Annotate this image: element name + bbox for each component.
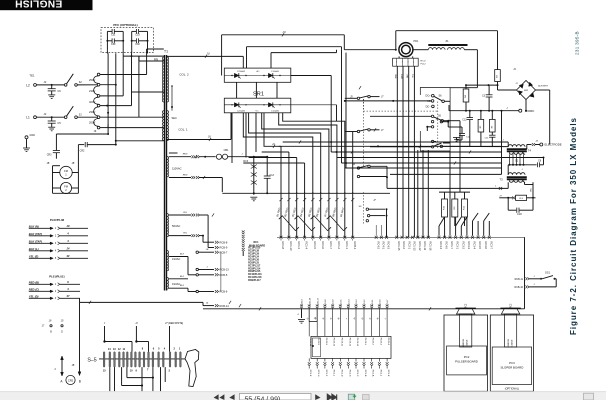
svg-text:BLK/WHT: BLK/WHT — [538, 86, 548, 88]
svg-text:R10: R10 — [444, 205, 446, 210]
S-5 switch bars — [99, 358, 185, 360]
svg-text:S–5: S–5 — [87, 358, 96, 364]
svg-text:RC3-3: RC3-3 — [467, 242, 471, 250]
ground C5 — [48, 126, 55, 128]
meter wiring — [52, 166, 54, 194]
U loop cols 2-3 — [309, 309, 317, 322]
connector RCB-5 — [196, 274, 198, 276]
svg-text:PL09-4: PL09-4 — [387, 338, 389, 346]
resistor R4 — [465, 85, 467, 89]
PFC pair 1 rails — [106, 31, 108, 50]
bus to SR2 — [466, 84, 498, 86]
svg-text:Figure 7-2. Circuit Diagram Fo: Figure 7-2. Circuit Diagram For 350 LX M… — [569, 117, 578, 335]
svg-text:18: 18 — [49, 320, 52, 323]
svg-text:R9: R9 — [454, 206, 456, 210]
svg-text:J4: J4 — [44, 113, 47, 116]
svg-text:BLK: BLK — [180, 285, 185, 287]
svg-text:RC1-3: RC1-3 — [297, 242, 301, 250]
svg-text:12: 12 — [118, 348, 121, 351]
bus mid 5 — [243, 162, 304, 164]
svg-text:RC3-1: RC3-1 — [456, 242, 460, 250]
svg-text:BLK (TAP): BLK (TAP) — [29, 232, 42, 236]
wire from PL011 down — [79, 298, 81, 302]
svg-text:CB1: CB1 — [224, 149, 229, 152]
svg-text:4Z: 4Z — [65, 254, 69, 258]
svg-text:SR1: SR1 — [253, 92, 264, 98]
switch S2 — [64, 84, 67, 87]
connector RCB-8 — [203, 241, 214, 243]
svg-text:S8: S8 — [359, 206, 362, 208]
wire to tap — [77, 84, 97, 86]
svg-text:RC1-K: RC1-K — [387, 370, 389, 377]
svg-text:230V: 230V — [89, 89, 95, 93]
svg-text:RC3: RC3 — [243, 160, 248, 163]
svg-text:RC1/PL010: RC1/PL010 — [248, 248, 261, 250]
svg-text:C23-A42: C23-A42 — [237, 70, 246, 73]
wire 110VAC bottom — [191, 176, 193, 179]
svg-text:B3 RED: B3 RED — [291, 207, 297, 217]
S-5 trigger lever — [185, 350, 199, 387]
svg-text:250V: 250V — [89, 78, 95, 82]
wire to T3 left — [386, 177, 388, 188]
rectifier SR1 top section — [224, 68, 290, 82]
wire vertical group A — [279, 198, 282, 201]
fan diagonal crossovers — [279, 216, 299, 231]
wire T1 top to SR1 — [167, 55, 244, 57]
svg-text:RC1-8: RC1-8 — [281, 242, 285, 250]
switch S5a — [357, 97, 359, 99]
svg-text:RC11/PL218: RC11/PL218 — [248, 277, 262, 279]
svg-text:RC2: RC2 — [466, 303, 468, 308]
board PC2 outline — [444, 315, 488, 391]
S6 gang dashed — [437, 102, 439, 149]
svg-text:J4: J4 — [206, 302, 209, 305]
gang link dashed — [364, 110, 438, 112]
svg-text:RC1-7: RC1-7 — [329, 242, 333, 250]
svg-text:PL09-1: PL09-1 — [364, 338, 366, 346]
svg-text:RC6/PL25: RC6/PL25 — [248, 262, 260, 264]
svg-text:YEL: YEL — [183, 212, 188, 214]
resistor R8 — [499, 197, 513, 199]
bus mid 2 — [279, 145, 502, 147]
svg-text:3: 3 — [407, 62, 409, 64]
svg-text:JB: JB — [72, 365, 75, 367]
svg-text:CR3: CR3 — [47, 153, 52, 156]
S-5 bottom wires — [109, 367, 111, 391]
svg-text:RC1-L: RC1-L — [333, 370, 335, 377]
svg-text:COL. 2: COL. 2 — [179, 73, 189, 77]
svg-text:BLK: BLK — [180, 254, 185, 256]
svg-text:B8 RED: B8 RED — [331, 207, 337, 217]
svg-text:J7: J7 — [373, 200, 376, 202]
pin row group B — [375, 236, 378, 239]
svg-text:RC3-5: RC3-5 — [478, 242, 482, 250]
svg-text:J: J — [502, 140, 504, 142]
svg-text:RC1-7: RC1-7 — [450, 242, 454, 250]
svg-text:T4: T4 — [528, 149, 532, 153]
transformer T4 — [508, 145, 525, 147]
svg-text:RC7/PL217: RC7/PL217 — [248, 265, 261, 267]
svg-text:C13: C13 — [270, 174, 275, 177]
toroid to PL12 — [398, 56, 400, 58]
svg-text:6: 6 — [153, 347, 155, 350]
tap wires — [100, 74, 147, 76]
svg-text:RCB-9: RCB-9 — [220, 246, 228, 250]
svg-text:2: 2 — [55, 290, 57, 293]
svg-text:C8: C8 — [538, 159, 542, 162]
wire T4 bus to T3 — [507, 165, 509, 175]
svg-text:RC1-J: RC1-J — [379, 370, 381, 376]
resistor R6 — [491, 111, 493, 120]
pdf viewer toolbar — [0, 391, 606, 400]
svg-text:9: 9 — [136, 369, 138, 372]
pin row group A — [280, 236, 283, 239]
wires taps to T1 primary — [123, 55, 164, 57]
svg-text:4: 4 — [54, 368, 56, 371]
pin row rail — [277, 236, 525, 238]
svg-text:BLK (TAP): BLK (TAP) — [29, 239, 42, 243]
svg-text:RC3-7: RC3-7 — [489, 242, 493, 250]
svg-text:JT: JT — [499, 195, 502, 197]
switch S5b — [357, 130, 359, 132]
wire T1 bottom bus JU — [167, 139, 231, 141]
svg-text:RC1-H: RC1-H — [317, 370, 319, 377]
svg-text:J7: J7 — [381, 130, 384, 132]
svg-text:2: 2 — [174, 347, 176, 350]
svg-text:PL12: PL12 — [421, 64, 427, 66]
connector PL12 — [393, 58, 419, 66]
wire J6 — [56, 133, 108, 135]
vertical risers from SR1 right — [341, 50, 343, 163]
svg-text:47: 47 — [66, 294, 70, 298]
wire B arrow — [79, 302, 81, 375]
svg-text:JB: JB — [72, 163, 75, 165]
top bus right — [396, 30, 498, 32]
svg-text:J7: J7 — [381, 97, 384, 99]
svg-text:231 395-B: 231 395-B — [575, 31, 580, 55]
svg-text:L2: L2 — [26, 83, 30, 87]
svg-text:RED: RED — [183, 154, 188, 156]
tap winding stack — [97, 73, 100, 76]
svg-text:J1: J1 — [515, 83, 518, 85]
svg-text:RCB/PL217: RCB/PL217 — [248, 280, 261, 282]
svg-text:C22-A42: C22-A42 — [237, 109, 246, 112]
svg-text:56VAC: 56VAC — [172, 224, 180, 228]
svg-text:460V: 460V — [89, 100, 95, 104]
ENGLISH banner (rotated 180) — [0, 0, 93, 10]
gnd terminal — [25, 136, 28, 139]
capacitor C32 — [132, 40, 137, 42]
svg-text:J4: J4 — [513, 68, 516, 71]
vertical from Z1 — [476, 50, 478, 88]
svg-text:PULSER BOARD: PULSER BOARD — [455, 359, 478, 363]
svg-text:AC: AC — [427, 100, 431, 103]
svg-text:CR2: CR2 — [80, 150, 85, 153]
SR2 right wire BLK/WHT — [536, 89, 550, 91]
svg-text:DC–: DC– — [426, 105, 432, 108]
svg-text:RCB-10: RCB-10 — [514, 286, 523, 289]
PC3 ribbon cable — [505, 314, 517, 347]
svg-text:RC3/PL29: RC3/PL29 — [248, 254, 260, 256]
ELECTRODE terminal — [536, 144, 540, 146]
svg-text:PL09-12: PL09-12 — [348, 338, 350, 347]
svg-text:RIBBON: RIBBON — [508, 339, 510, 347]
svg-text:RC1-16: RC1-16 — [428, 242, 432, 251]
svg-text:RC3-4: RC3-4 — [473, 242, 477, 250]
svg-text:PRI: PRI — [154, 59, 158, 62]
svg-text:4: 4 — [66, 239, 69, 243]
svg-text:C14-A41: C14-A41 — [271, 70, 280, 73]
tap vertical bus 2 — [115, 53, 117, 144]
svg-text:J4: J4 — [535, 140, 538, 143]
arrow A — [61, 356, 63, 376]
svg-text:RC1-F: RC1-F — [325, 370, 327, 377]
svg-text:RC4-5: RC4-5 — [445, 242, 449, 250]
capacitor C12 — [469, 111, 471, 118]
svg-text:CABLE: CABLE — [510, 339, 513, 346]
svg-text:R11: R11 — [464, 205, 466, 210]
svg-text:J: J — [495, 186, 497, 188]
ground wire col1 — [301, 309, 303, 318]
svg-text:RC1-11: RC1-11 — [423, 242, 427, 251]
svg-text:RC4-1: RC4-1 — [382, 242, 386, 250]
svg-text:1: 1 — [55, 227, 57, 230]
svg-text:PFC (OPTIONAL): PFC (OPTIONAL) — [113, 23, 137, 27]
svg-text:B5 RED: B5 RED — [307, 207, 313, 217]
capacitor C5 — [51, 117, 53, 121]
capacitor C14 with ground — [447, 122, 449, 127]
svg-text:2: 2 — [65, 188, 67, 192]
pin row group E — [449, 236, 452, 239]
svg-text:RC10/PL216: RC10/PL216 — [248, 274, 262, 276]
T1 primary right winding COL2 — [167, 57, 169, 102]
svg-text:GND: GND — [30, 134, 36, 137]
capacitor C8 — [537, 162, 539, 167]
svg-text:4: 4 — [413, 62, 415, 64]
svg-text:4: 4 — [297, 313, 299, 316]
svg-text:WHT: WHT — [401, 73, 403, 78]
svg-text:19VAC: 19VAC — [172, 257, 180, 261]
svg-text:HD1: HD1 — [414, 40, 419, 43]
connector RCB-9 — [208, 247, 214, 249]
svg-text:RC1-5: RC1-5 — [313, 242, 317, 250]
connector J8 lower — [440, 145, 442, 147]
svg-text:5: 5 — [158, 347, 160, 350]
WORK terminal — [449, 110, 519, 112]
svg-text:TE1: TE1 — [29, 74, 35, 78]
svg-text:RC3: RC3 — [510, 303, 512, 308]
resistor R3 — [495, 70, 501, 82]
wire 19VAC A top — [169, 256, 188, 258]
tap vertical bus 4 — [131, 53, 133, 105]
wire 110VAC top — [166, 152, 168, 154]
svg-text:C5: C5 — [57, 121, 61, 125]
svg-text:PL09-3: PL09-3 — [379, 338, 381, 346]
svg-text:J4: J4 — [67, 247, 70, 251]
PFC pair 2 rails — [131, 31, 133, 50]
toolbar snapshot icon — [348, 394, 354, 400]
SR1 right outputs — [291, 75, 331, 77]
svg-text:S8: S8 — [352, 164, 355, 166]
capacitor C31 — [107, 30, 112, 32]
svg-text:C6: C6 — [57, 89, 61, 93]
right vertical bus a — [501, 111, 503, 175]
wire 19VAC B — [169, 278, 188, 280]
toolbar page field — [240, 393, 312, 400]
capacitor C11 — [489, 134, 495, 136]
svg-text:S6: S6 — [438, 95, 442, 98]
svg-text:YEL (E): YEL (E) — [29, 254, 39, 258]
ground symbol — [253, 190, 255, 195]
svg-text:C12-A41: C12-A41 — [271, 109, 280, 112]
svg-text:YEL: YEL — [183, 233, 188, 235]
svg-text:10: 10 — [130, 369, 133, 372]
svg-text:RC2-2: RC2-2 — [402, 242, 406, 250]
svg-text:C33: C33 — [135, 33, 140, 36]
svg-text:DC+: DC+ — [426, 95, 432, 98]
vertical connector chain — [242, 230, 245, 232]
svg-text:WORK: WORK — [525, 109, 534, 113]
vertical link — [220, 252, 222, 291]
svg-text:RC1-B: RC1-B — [364, 370, 366, 377]
svg-text:230V: 230V — [89, 110, 95, 114]
svg-text:RC1-15: RC1-15 — [397, 242, 401, 251]
svg-text:RED (C): RED (C) — [29, 287, 39, 291]
svg-text:S6: S6 — [438, 116, 442, 118]
svg-text:D: D — [61, 331, 63, 334]
svg-text:11: 11 — [122, 348, 125, 351]
svg-text:200V: 200V — [89, 121, 95, 125]
svg-text:T3: T3 — [499, 178, 503, 182]
PL12 wires down — [396, 66, 398, 237]
svg-text:B1 RED: B1 RED — [275, 207, 281, 217]
svg-text:PL09-9: PL09-9 — [325, 338, 327, 346]
T1 secondary 110VAC winding — [167, 157, 168, 177]
svg-text:2: 2 — [55, 235, 57, 238]
svg-text:R6: R6 — [491, 125, 493, 128]
svg-text:PL07/PL08: PL07/PL08 — [50, 218, 65, 222]
svg-text:JU: JU — [208, 135, 211, 139]
connector strip PL09 — [311, 336, 391, 358]
resistor R5 — [480, 111, 482, 120]
T4 primary left wire — [507, 142, 509, 147]
svg-text:B: B — [79, 380, 81, 384]
svg-text:RCB-8: RCB-8 — [220, 240, 228, 244]
tap vertical bus 5 — [138, 56, 140, 117]
tap vertical bus 1 — [107, 53, 109, 127]
svg-text:YEL: YEL — [531, 188, 533, 192]
svg-text:J: J — [241, 154, 243, 156]
S6 enclosure box — [420, 88, 450, 152]
svg-text:2: 2 — [402, 62, 404, 64]
svg-text:8: 8 — [142, 347, 144, 350]
svg-text:J: J — [533, 276, 535, 278]
board PC3 outline — [490, 315, 533, 391]
SR1 interconnect — [236, 82, 238, 98]
svg-text:RC4-4: RC4-4 — [439, 242, 443, 250]
S6 feed wire — [444, 100, 450, 102]
capacitor C30 — [107, 40, 112, 42]
capacitor C13 — [266, 157, 268, 176]
rectifier SR2 bridge — [517, 81, 536, 100]
svg-text:1: 1 — [55, 283, 57, 286]
tap vertical bus 6 — [146, 49, 148, 75]
toolbar first page button — [214, 394, 225, 400]
svg-text:GS1: GS1 — [545, 271, 551, 275]
svg-text:5: 5 — [55, 257, 57, 260]
svg-text:RC3-2: RC3-2 — [461, 242, 465, 250]
wire label ticks — [205, 55, 207, 58]
svg-text:SLOPER BOARD: SLOPER BOARD — [500, 365, 523, 369]
T1 secondary 19VAC winding A — [167, 250, 168, 270]
svg-text:17: 17 — [42, 325, 45, 328]
svg-text:RC1-E: RC1-E — [309, 370, 311, 377]
wire L1 — [36, 116, 64, 118]
electrode wire — [527, 144, 532, 146]
svg-text:3: 3 — [169, 369, 171, 372]
svg-text:7: 7 — [147, 369, 149, 372]
svg-text:CABLE: CABLE — [465, 339, 468, 346]
pin group D diagonals — [439, 217, 445, 226]
toolbar last page button — [327, 394, 336, 400]
svg-text:15: 15 — [61, 320, 64, 323]
SR1 gate wires down — [243, 113, 312, 194]
svg-text:1: 1 — [179, 347, 181, 350]
svg-text:C12: C12 — [462, 119, 467, 121]
wire GS1 riser — [524, 237, 526, 308]
wire L2 — [36, 84, 64, 86]
svg-text:RC1-10: RC1-10 — [289, 242, 293, 251]
svg-text:9: 9 — [67, 280, 69, 284]
svg-text:PL09-14: PL09-14 — [309, 338, 311, 347]
svg-text:RIBBON: RIBBON — [463, 339, 465, 347]
switch S1 — [64, 116, 67, 119]
svg-text:FM: FM — [64, 184, 68, 188]
svg-text:C1: C1 — [515, 159, 519, 162]
svg-text:110VAC: 110VAC — [172, 166, 182, 170]
ground C6 — [48, 94, 55, 96]
svg-text:PL09-10: PL09-10 — [333, 338, 335, 347]
PC2 ribbon cable — [460, 314, 472, 347]
SR1 lower drops to left bundle — [231, 113, 233, 163]
svg-text:BLK: BLK — [180, 276, 185, 278]
bus mid 3 — [262, 151, 289, 153]
svg-text:FM: FM — [64, 169, 68, 173]
svg-text:A: A — [60, 380, 63, 384]
PFC leg joins — [106, 52, 109, 54]
svg-text:C32: C32 — [135, 43, 140, 46]
bus mid 4 — [249, 157, 297, 159]
svg-text:JJ: JJ — [135, 322, 138, 325]
svg-text:RC1-6: RC1-6 — [321, 242, 325, 250]
transformer T3 — [508, 173, 525, 175]
svg-text:1: 1 — [396, 62, 398, 64]
svg-text:R4: R4 — [465, 94, 467, 98]
bus mid 1 — [283, 141, 509, 143]
T3 right leg — [532, 182, 534, 198]
svg-text:13: 13 — [113, 348, 116, 351]
T1 COL1 left winding — [162, 111, 164, 141]
svg-text:RC1-G: RC1-G — [348, 370, 350, 377]
svg-text:B6 RED: B6 RED — [315, 207, 321, 217]
toolbar prev page button — [229, 394, 234, 400]
svg-text:3: 3 — [55, 242, 57, 245]
svg-text:BLK: BLK — [407, 73, 409, 77]
connector RCB-13 — [196, 268, 198, 270]
svg-text:RC2/PL28: RC2/PL28 — [248, 251, 260, 253]
fan motor FM2 — [60, 182, 71, 193]
svg-text:RC1-12: RC1-12 — [418, 242, 422, 251]
